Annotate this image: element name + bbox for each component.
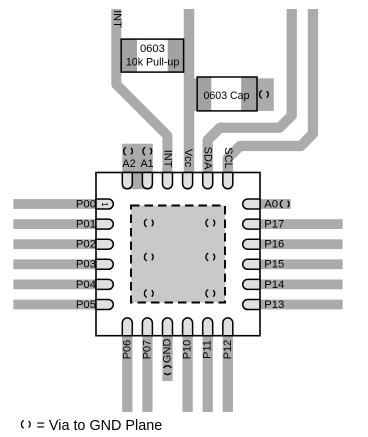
svg-text:P17: P17 (264, 219, 284, 231)
pin P06 (122, 318, 132, 336)
svg-text:0603 Cap: 0603 Cap (204, 90, 250, 102)
pin SCL (223, 173, 233, 189)
pin INT (163, 173, 173, 189)
pin P00 (96, 199, 113, 209)
via in exposed pad (bottom-right) (206, 290, 215, 298)
wire SDA trace from top right to SDA pin (208, 9, 292, 173)
svg-text:10k Pull-up: 10k Pull-up (126, 57, 180, 69)
pin A0 (243, 199, 260, 209)
wire P12 trace (223, 336, 233, 412)
wire P11 trace (203, 336, 213, 412)
exposed pad (thermal pad) (131, 206, 225, 303)
wire INT vertical+diagonal trace from top to INT pin (116, 9, 167, 173)
svg-text:INT: INT (111, 10, 123, 28)
wire P03 trace (13, 259, 96, 269)
wire P00 trace (13, 199, 96, 209)
pin P02 (96, 239, 113, 249)
wire P13 trace (260, 300, 343, 310)
svg-text:P05: P05 (76, 299, 96, 311)
svg-text:P10: P10 (182, 340, 194, 360)
pin P14 (243, 279, 260, 289)
svg-text:A2: A2 (122, 158, 135, 170)
wire P07 trace (142, 336, 152, 412)
legend via symbol (21, 420, 30, 428)
wire GND patch right of capacitor (257, 78, 274, 111)
svg-text:P16: P16 (264, 239, 284, 251)
wire GND trace (162, 336, 172, 381)
pin Vcc (183, 173, 193, 189)
svg-text:= Via to GND Plane: = Via to GND Plane (37, 418, 163, 434)
wire P16 trace (260, 239, 343, 249)
pin P11 (203, 318, 213, 336)
pin P17 (243, 219, 260, 229)
IC U1 outline (96, 173, 260, 336)
IC U1 body (96, 173, 260, 336)
svg-text:P03: P03 (76, 259, 96, 271)
wire Vcc vertical trace from top to Vcc pin (184, 9, 195, 173)
svg-text:P04: P04 (76, 279, 96, 291)
svg-text:A0: A0 (264, 198, 278, 210)
pin P01 (96, 219, 113, 229)
wire P15 trace (260, 259, 343, 269)
wire Vcc stub to capacitor left pad (193, 78, 202, 111)
via on GND trace (164, 366, 172, 375)
resistor R1 left pad (121, 39, 137, 72)
via in exposed pad (mid-right) (206, 253, 215, 261)
wire P06 trace (122, 336, 132, 412)
pin P05 (96, 300, 113, 310)
svg-text:A1: A1 (140, 158, 153, 170)
pin P15 (243, 259, 260, 269)
wire P17 trace (260, 219, 343, 229)
capacitor C1 left pad (197, 77, 211, 111)
svg-text:P06: P06 (121, 340, 133, 360)
pin P13 (243, 300, 260, 310)
capacitor C1 outline (197, 77, 257, 111)
pin GND (163, 318, 173, 336)
svg-text:SCL: SCL (222, 147, 234, 168)
svg-text:1: 1 (100, 202, 109, 207)
svg-text:P01: P01 (76, 219, 96, 231)
svg-text:SDA: SDA (202, 147, 214, 170)
pin P04 (96, 279, 113, 289)
svg-text:P12: P12 (222, 340, 234, 360)
via on A0 trace (280, 200, 289, 208)
via in exposed pad (mid-left) (144, 253, 153, 261)
wire P02 trace (13, 239, 96, 249)
via in exposed pad (bottom-left) (144, 290, 153, 298)
svg-text:P14: P14 (264, 279, 284, 291)
capacitor C1 right pad (241, 77, 257, 111)
wire P14 trace (260, 280, 343, 290)
svg-text:P02: P02 (76, 239, 96, 251)
via right of capacitor (260, 91, 269, 99)
resistor R1 right pad (168, 39, 184, 72)
via in exposed pad (top-right) (206, 219, 215, 227)
pin A1 (142, 173, 152, 189)
svg-text:P15: P15 (264, 259, 284, 271)
svg-text:P11: P11 (202, 340, 214, 359)
pin A2 (122, 173, 132, 189)
pin SDA (203, 173, 213, 189)
svg-text:INT: INT (161, 150, 173, 168)
svg-text:0603: 0603 (140, 43, 165, 55)
capacitor C1 0603 body (197, 77, 257, 111)
pin P10 (183, 318, 193, 336)
via above pin A2 (124, 147, 133, 155)
wire A0 trace (260, 199, 291, 209)
svg-text:P00: P00 (76, 198, 96, 210)
svg-text:P07: P07 (141, 340, 153, 360)
svg-text:GND: GND (162, 339, 174, 364)
pin P03 (96, 259, 113, 269)
wire SCL trace from top right to SCL pin (228, 9, 313, 173)
svg-text:Vcc: Vcc (182, 149, 194, 168)
wire P01 trace (13, 219, 96, 229)
wire P04 trace (13, 280, 96, 290)
pin P16 (243, 239, 260, 249)
wire P10 trace (182, 336, 192, 412)
via above pin A1 (143, 147, 152, 155)
svg-text:P13: P13 (264, 299, 284, 311)
wire A2/A1 address strap block (122, 144, 153, 190)
wire P05 trace (13, 300, 96, 310)
pin P12 (223, 318, 233, 336)
pin P07 (142, 318, 152, 336)
via in exposed pad (top-left) (144, 219, 153, 227)
resistor R1 0603 10k pull-up body (121, 39, 183, 72)
resistor R1 outline (121, 39, 183, 72)
